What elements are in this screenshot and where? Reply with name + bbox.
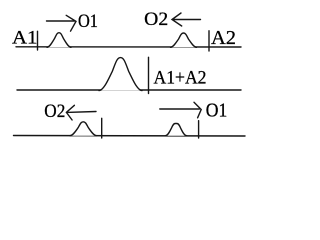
wire: middle transmission line baseline [17,89,241,91]
svg-text:A1+A2: A1+A2 [154,68,207,89]
tick: tall marker right of superposition pulse [148,57,150,93]
wire: top transmission line baseline [16,46,241,48]
pulse A2 (bell curve on top line, right) [171,33,197,47]
svg-text:O1: O1 [206,100,228,122]
node A2 label [211,27,236,49]
svg-text:A2: A2 [211,27,236,49]
node O2 label (bottom) [44,101,65,122]
arrow: rightward propagation arrow above pulse O1 [160,102,201,118]
node O1 label (top) [78,11,98,32]
node A1+A2 label [154,68,207,89]
arrow: leftward propagation arrow above pulse O2 [66,105,96,120]
wire: bottom transmission line baseline [14,135,246,138]
node A1 label [12,28,38,49]
tick: input marker right of pulse A2 [208,31,210,51]
arrow: rightward propagation arrow above pulse A1 [47,15,77,31]
svg-text:O2: O2 [144,9,168,30]
tick: output marker right of pulse O1 [198,121,200,138]
pulse O2 (bell curve on bottom line, left) [70,122,97,136]
svg-text:O1: O1 [78,11,98,32]
pulse A1+A2 (large superposition bell on middle line) [99,58,142,91]
pulse O1 (bell curve on bottom line, right) [165,124,186,136]
arrow: leftward propagation arrow above pulse A2 [172,13,201,26]
svg-text:O2: O2 [44,101,65,122]
tick: input marker left of pulse A1 [37,31,39,50]
svg-text:A1: A1 [12,28,38,49]
node O1 label (bottom) [206,100,228,122]
tick: output marker right of pulse O2 [101,118,103,138]
node O2 label (top) [144,9,168,30]
pulse A1 (bell curve on top line, left) [47,33,71,48]
